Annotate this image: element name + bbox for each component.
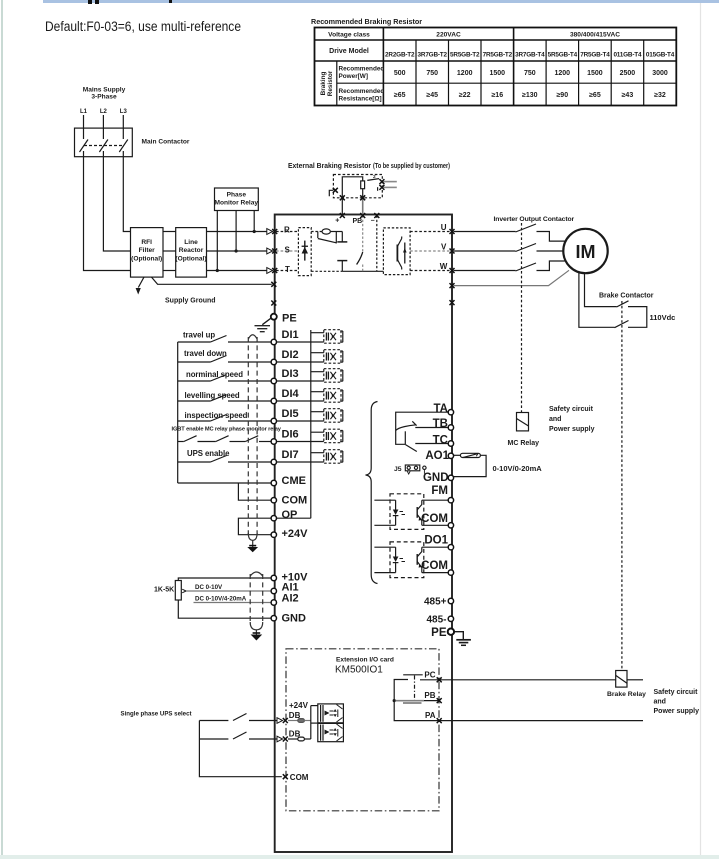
DI4 switch: levelling speed [178,400,211,402]
svg-text:COM: COM [282,495,308,507]
external braking resistor caption [288,163,450,170]
svg-text:S: S [285,245,291,254]
braking resistor dashed box [333,175,382,198]
W contact blade [516,263,537,271]
brake wire bracket top [628,307,647,328]
svg-text:L3: L3 [120,109,128,115]
terminal AI1 [271,588,276,593]
svg-text:AI2: AI2 [282,593,299,605]
svg-text:+: + [335,218,339,225]
brake captions [599,293,675,323]
brake chopper switch [357,252,363,265]
svg-text:and: and [549,416,561,423]
AI2 wire [194,602,271,604]
svg-text:J5: J5 [394,466,402,473]
DB labels [289,701,309,782]
table row line r1 [315,39,677,41]
svg-text:DC 0-10V: DC 0-10V [195,584,223,591]
AI1 wire [186,590,271,592]
svg-text:Supply Ground: Supply Ground [165,298,216,305]
brake contactor link dashed [621,301,623,671]
svg-text:Braking: Braking [320,72,327,96]
page left border [1,0,3,855]
terminal labels right side [421,403,449,639]
svg-text:485+: 485+ [424,597,447,608]
S dashed wire to rectifier [276,250,298,252]
shield tube analog [250,574,263,625]
x-mark thermal a [379,179,384,184]
table col line labels [382,28,384,106]
motor PE wire [454,270,570,285]
svg-text:L2: L2 [100,109,108,115]
optocoupler DI5 [277,409,343,423]
mains supply labels [80,87,190,146]
svg-text:COM: COM [290,773,309,782]
wire L2 drop [102,115,104,128]
svg-text:IGBT enable MC relay phase mo: IGBT enable MC relay phase monitor relay [172,427,282,433]
brake chopper dashed drop [362,216,364,253]
motor IM [563,229,607,273]
U contact blade [516,224,537,232]
svg-text:0-10V/0-20mA: 0-10V/0-20mA [493,464,543,473]
svg-text:DO1: DO1 [424,535,448,547]
terminal DI1 [271,339,276,344]
svg-text:–: – [371,218,375,225]
ext opto 2 [318,723,344,741]
svg-text:Resistance[Ω]: Resistance[Ω] [339,95,382,102]
svg-text:Voltage class: Voltage class [328,32,370,39]
brake contact blade 2 [615,321,629,328]
svg-text:DI4: DI4 [282,388,300,400]
svg-text:Default:F0-03=6, use multi-ref: Default:F0-03=6, use multi-reference [45,19,241,34]
svg-text:3000: 3000 [652,70,668,77]
analog wire labels [195,584,247,603]
inverter output contactor caption [494,216,575,223]
svg-text:Filter: Filter [139,247,156,254]
table row line r3 [337,82,677,84]
+10V wire [178,578,270,581]
svg-text:3R7GB-T4: 3R7GB-T4 [515,52,545,59]
PE right ground symbol [454,632,471,646]
terminal GND [448,475,453,480]
svg-text:Recommended: Recommended [339,66,385,73]
svg-text:3R7GB-T2: 3R7GB-T2 [418,52,448,59]
UPS bus [199,721,281,777]
svg-text:≥22: ≥22 [459,92,471,99]
terminal COM2 [448,570,453,575]
terminal CME [271,480,276,485]
wire RFI to reactor S [163,250,176,252]
svg-text:MC Relay: MC Relay [508,440,540,447]
svg-text:Reactor: Reactor [179,247,204,254]
precharge wire to + rail [331,231,343,233]
x-mark S [272,249,277,254]
svg-text:Brake Relay: Brake Relay [607,691,646,698]
x-mark V [450,249,455,254]
terminal circles left edge [271,339,276,621]
svg-text:≥130: ≥130 [522,92,538,99]
svg-text:≥16: ≥16 [491,92,503,99]
terminal DI3 [271,378,276,383]
arrow into DB1 [277,718,283,742]
table row line r2 [315,60,677,62]
optocoupler DI1 [277,330,343,344]
svg-text:FM: FM [431,485,448,497]
optocoupler DI3 [277,369,343,383]
x-mark DB2 [283,737,288,742]
terminal +10V [271,575,276,580]
line reactor box [176,228,207,278]
svg-text:TB: TB [433,418,448,430]
svg-text:Single phase UPS select: Single phase UPS select [121,711,193,718]
svg-text:DI2: DI2 [282,349,299,361]
capacitor C1 plates [337,241,347,243]
x-mark T [272,268,277,273]
arrow into R [267,229,273,274]
U wire to contactor [454,231,516,233]
svg-text:Power supply: Power supply [654,708,700,715]
RFI ground arrowhead [136,288,141,295]
pot wiper arrow [182,589,186,593]
contactor pole 3 [122,128,124,139]
contactor link dashed [84,145,123,147]
DC+ rail lower [341,261,343,272]
svg-text:110Vdc: 110Vdc [650,313,676,322]
x-mark R [272,229,277,234]
terminal COM [448,523,453,528]
OP wire to opto bus [277,517,311,519]
DI7 switch: UPS enable [178,461,211,463]
svg-text:+24V: +24V [282,528,309,540]
DO1 optocoupler [374,542,447,578]
MC relay dashed feed [517,413,529,431]
left bus [177,342,179,483]
brake contact blade 1 [617,301,629,307]
resistor RB lower lead [362,189,364,198]
svg-text:T: T [285,265,290,274]
svg-text:2500: 2500 [620,70,636,77]
tap to S wire [235,211,237,252]
opto bus [310,330,312,518]
svg-text:DI5: DI5 [282,408,299,420]
GND wire [178,600,270,618]
terminal DI5 [271,418,276,423]
svg-text:≥43: ≥43 [622,92,634,99]
svg-text:Drive Model: Drive Model [329,48,369,55]
thermal contact mark [329,190,333,196]
svg-text:norminal speed: norminal speed [186,370,243,379]
brake relay [616,671,627,688]
svg-text:levelling speed: levelling speed [185,391,240,400]
terminal GND [271,616,276,621]
arrow into DB2 [277,736,283,742]
svg-text:Recommended Braking Resistor: Recommended Braking Resistor [311,17,422,26]
thermal switch blade [367,179,379,181]
x-mark PBx [437,698,442,703]
terminal DI4 [271,398,276,403]
thermal contact wires out [382,181,397,183]
svg-text:015GB-T4: 015GB-T4 [646,52,675,59]
terminal DI2 [271,359,276,364]
svg-text:3-Phase: 3-Phase [91,94,117,101]
safety circuit caption mid [549,406,595,433]
terminal DI7 [271,459,276,464]
svg-text:OP: OP [282,509,298,521]
extension relay contact [394,675,438,721]
svg-text:7R5GB-T2: 7R5GB-T2 [483,52,513,59]
svg-text:Safety circuit: Safety circuit [549,406,594,413]
svg-text:KM500IO1: KM500IO1 [335,665,383,676]
svg-text:Brake Contactor: Brake Contactor [599,293,654,300]
arrow into T [267,268,273,274]
svg-text:DI1: DI1 [282,329,299,341]
V contact blade [516,244,537,252]
shield tube digital [248,337,257,536]
motor brake wire left [579,273,615,328]
terminal AO1 [448,453,453,458]
V wire to contactor [454,250,516,252]
svg-text:7R5GB-T4: 7R5GB-T4 [580,52,610,59]
page right faint border [700,0,702,859]
svg-text:380/400/415VAC: 380/400/415VAC [570,32,620,39]
svg-text:DC 0-10V/4-20mA: DC 0-10V/4-20mA [195,596,247,603]
DI terminal circles and labels [282,329,309,625]
tap to T wire [216,211,218,271]
terminal 485+ [448,598,453,603]
svg-text:Mains Supply: Mains Supply [83,87,126,94]
table outer frame [315,28,677,106]
precharge bypass contact [317,232,319,239]
terminal TA [448,410,453,415]
W dashed wire [410,270,451,272]
contactor pole 2 [102,128,104,139]
x-mark braking + [340,195,345,200]
precharge resistor oval [322,229,330,234]
terminal DI6 [271,439,276,444]
wire reactor to T terminal [207,270,267,272]
svg-text:GND: GND [423,472,449,484]
wire L3 drop [122,115,124,128]
svg-text:W: W [440,262,448,271]
optocoupler DI6 [277,429,343,443]
svg-text:PA: PA [425,711,436,720]
svg-text:RFI: RFI [141,239,152,246]
svg-text:Main Contactor: Main Contactor [142,139,190,146]
x-mark PB [360,213,365,218]
x-mark PC [437,677,442,682]
svg-text:≥45: ≥45 [426,92,438,99]
x-mark + [340,213,345,218]
svg-text:TA: TA [434,403,448,415]
analog shield ground [251,635,263,641]
DI6 double switch [178,441,184,443]
main contactor box [75,128,133,157]
svg-text:travel up: travel up [183,331,215,340]
minus dashed drop [376,216,378,272]
svg-text:travel down: travel down [184,349,227,358]
svg-text:PE: PE [282,313,297,325]
x-mark COMext [283,774,288,779]
contactor link dashed [521,223,523,413]
svg-text:V: V [441,243,447,252]
x-mark W [450,268,455,273]
junction dot S tap [235,249,238,252]
wire L3 to RFI top [123,157,130,232]
CME wire [178,482,271,484]
terminal TB [448,425,453,430]
V wire to motor [537,250,564,252]
wire reactor to S terminal [207,250,267,252]
svg-text:+24V: +24V [289,701,309,710]
svg-text:PE: PE [431,627,447,639]
relay TA TB TC [396,412,448,451]
svg-text:Extension I/O card: Extension I/O card [336,657,394,664]
group brace [366,402,378,584]
U dashed wire [410,231,451,233]
FM optocoupler [374,494,447,530]
svg-text:≥65: ≥65 [589,92,601,99]
IGBT symbol [397,237,401,270]
svg-text:R: R [284,226,290,235]
phase monitor relay box [215,188,259,211]
optocoupler DI2 [277,350,343,364]
terminal DO1 [448,545,453,550]
inverter main box [275,215,452,853]
braking resistor table [311,17,422,26]
RFI filter box [131,228,164,278]
RFI ground arrow [138,277,144,287]
svg-text:IM: IM [576,242,596,262]
DI1 switch: travel up [178,341,211,343]
terminal PE right [448,629,454,635]
terminal +24V [271,532,276,537]
svg-text:≥65: ≥65 [394,92,406,99]
W wire to contactor [454,270,516,272]
svg-text:COM: COM [421,560,448,572]
svg-text:CME: CME [282,475,306,487]
ext opto 1 [318,704,344,723]
svg-text:and: and [654,699,666,706]
IGBT diode arrow [403,248,407,253]
table text [320,32,675,103]
x-mark supply ground [271,282,276,287]
svg-text:1200: 1200 [555,70,571,77]
wire RFI to reactor T [163,270,176,272]
svg-text:Safety circuit: Safety circuit [654,689,699,696]
svg-text:L1: L1 [80,109,88,115]
terminal labels + PB - [335,218,375,226]
svg-text:011GB-T4: 011GB-T4 [613,52,642,59]
+24V feed line [310,706,312,739]
resistor RB wiring [342,177,362,198]
svg-text:Power[W]: Power[W] [339,73,368,80]
safety circuit caption bottom [654,689,700,715]
svg-text:AO1: AO1 [425,450,449,462]
R dashed wire to rectifier [276,231,298,233]
svg-text:1500: 1500 [587,70,603,77]
contactor pole 1 [83,128,85,139]
svg-text:Recommended: Recommended [339,88,385,95]
x-mark braking PB [360,195,365,200]
x-mark PAx [437,718,442,723]
wire L1 to RFI bottom [84,157,131,271]
svg-text:DI3: DI3 [282,368,299,380]
DC bottom bus [311,270,342,272]
svg-text:PC: PC [424,670,435,679]
resistor RB body [361,181,365,189]
svg-text:U: U [441,223,447,232]
svg-text:Phase: Phase [227,191,247,198]
svg-text:2R2GB-T2: 2R2GB-T2 [385,52,415,59]
DI3 switch: norminal speed [178,380,211,382]
PE ground symbol [255,318,271,331]
terminal OP [271,516,276,521]
svg-text:External Braking Resistor: External Braking Resistor [288,163,371,170]
motor brake wire right [585,273,617,307]
DI wire labels [172,331,282,459]
svg-text:5R5GB-T4: 5R5GB-T4 [548,52,578,59]
x-mark thermal c [333,188,338,193]
wire brakingPB down [362,198,364,216]
svg-text:PB: PB [424,691,435,700]
svg-text:COM: COM [421,513,448,525]
junction dot R tap [253,230,256,233]
x-mark thermal b [379,185,384,190]
x-mark left edge gnd [271,301,276,306]
extension card captions [335,657,394,676]
wire RFI to reactor R [163,231,176,233]
svg-text:750: 750 [524,70,536,77]
shield ground symbol [247,547,258,552]
svg-text:DI7: DI7 [282,449,299,461]
DB2 wire + resistor [288,738,298,740]
DC precharge dashed link [311,231,321,233]
terminal circles right edge [448,410,453,622]
DC+ rail with capacitor [341,232,343,242]
UPS select switches [199,714,281,777]
tap to R wire [253,211,255,232]
arrow into S [267,248,273,254]
top heading highlight strip [43,0,719,3]
x-mark motor PE [450,283,455,288]
terminal FM [448,498,453,503]
OP +24V loop [238,518,270,535]
wire braking+ down [341,198,343,216]
svg-text:inspection speed: inspection speed [185,411,248,420]
wire L1 drop [83,115,85,128]
rectifier diode [304,241,306,261]
U V W labels [440,223,448,271]
svg-text:1K-5K: 1K-5K [154,587,174,594]
U wire to motor [537,232,565,242]
x-mark DB1 [283,718,288,723]
svg-text:5R5GB-T2: 5R5GB-T2 [450,52,480,59]
rectifier diode arrow [302,247,308,254]
IGBT dashed box [383,228,410,275]
AO1 output pot [454,453,486,476]
svg-text:GND: GND [282,613,307,625]
svg-text:Monitor Relay: Monitor Relay [214,199,258,206]
svg-text:Line: Line [184,239,198,246]
x-mark minus [374,213,379,218]
wire reactor to R terminal [207,231,267,233]
svg-text:Resistor: Resistor [327,70,334,96]
svg-text:(Optional): (Optional) [175,256,206,263]
optocoupler DI4 [277,389,343,403]
junction dot T tap [216,269,219,272]
supply ground x entry [0,0,1,1]
PC PB PA labels [424,670,435,720]
